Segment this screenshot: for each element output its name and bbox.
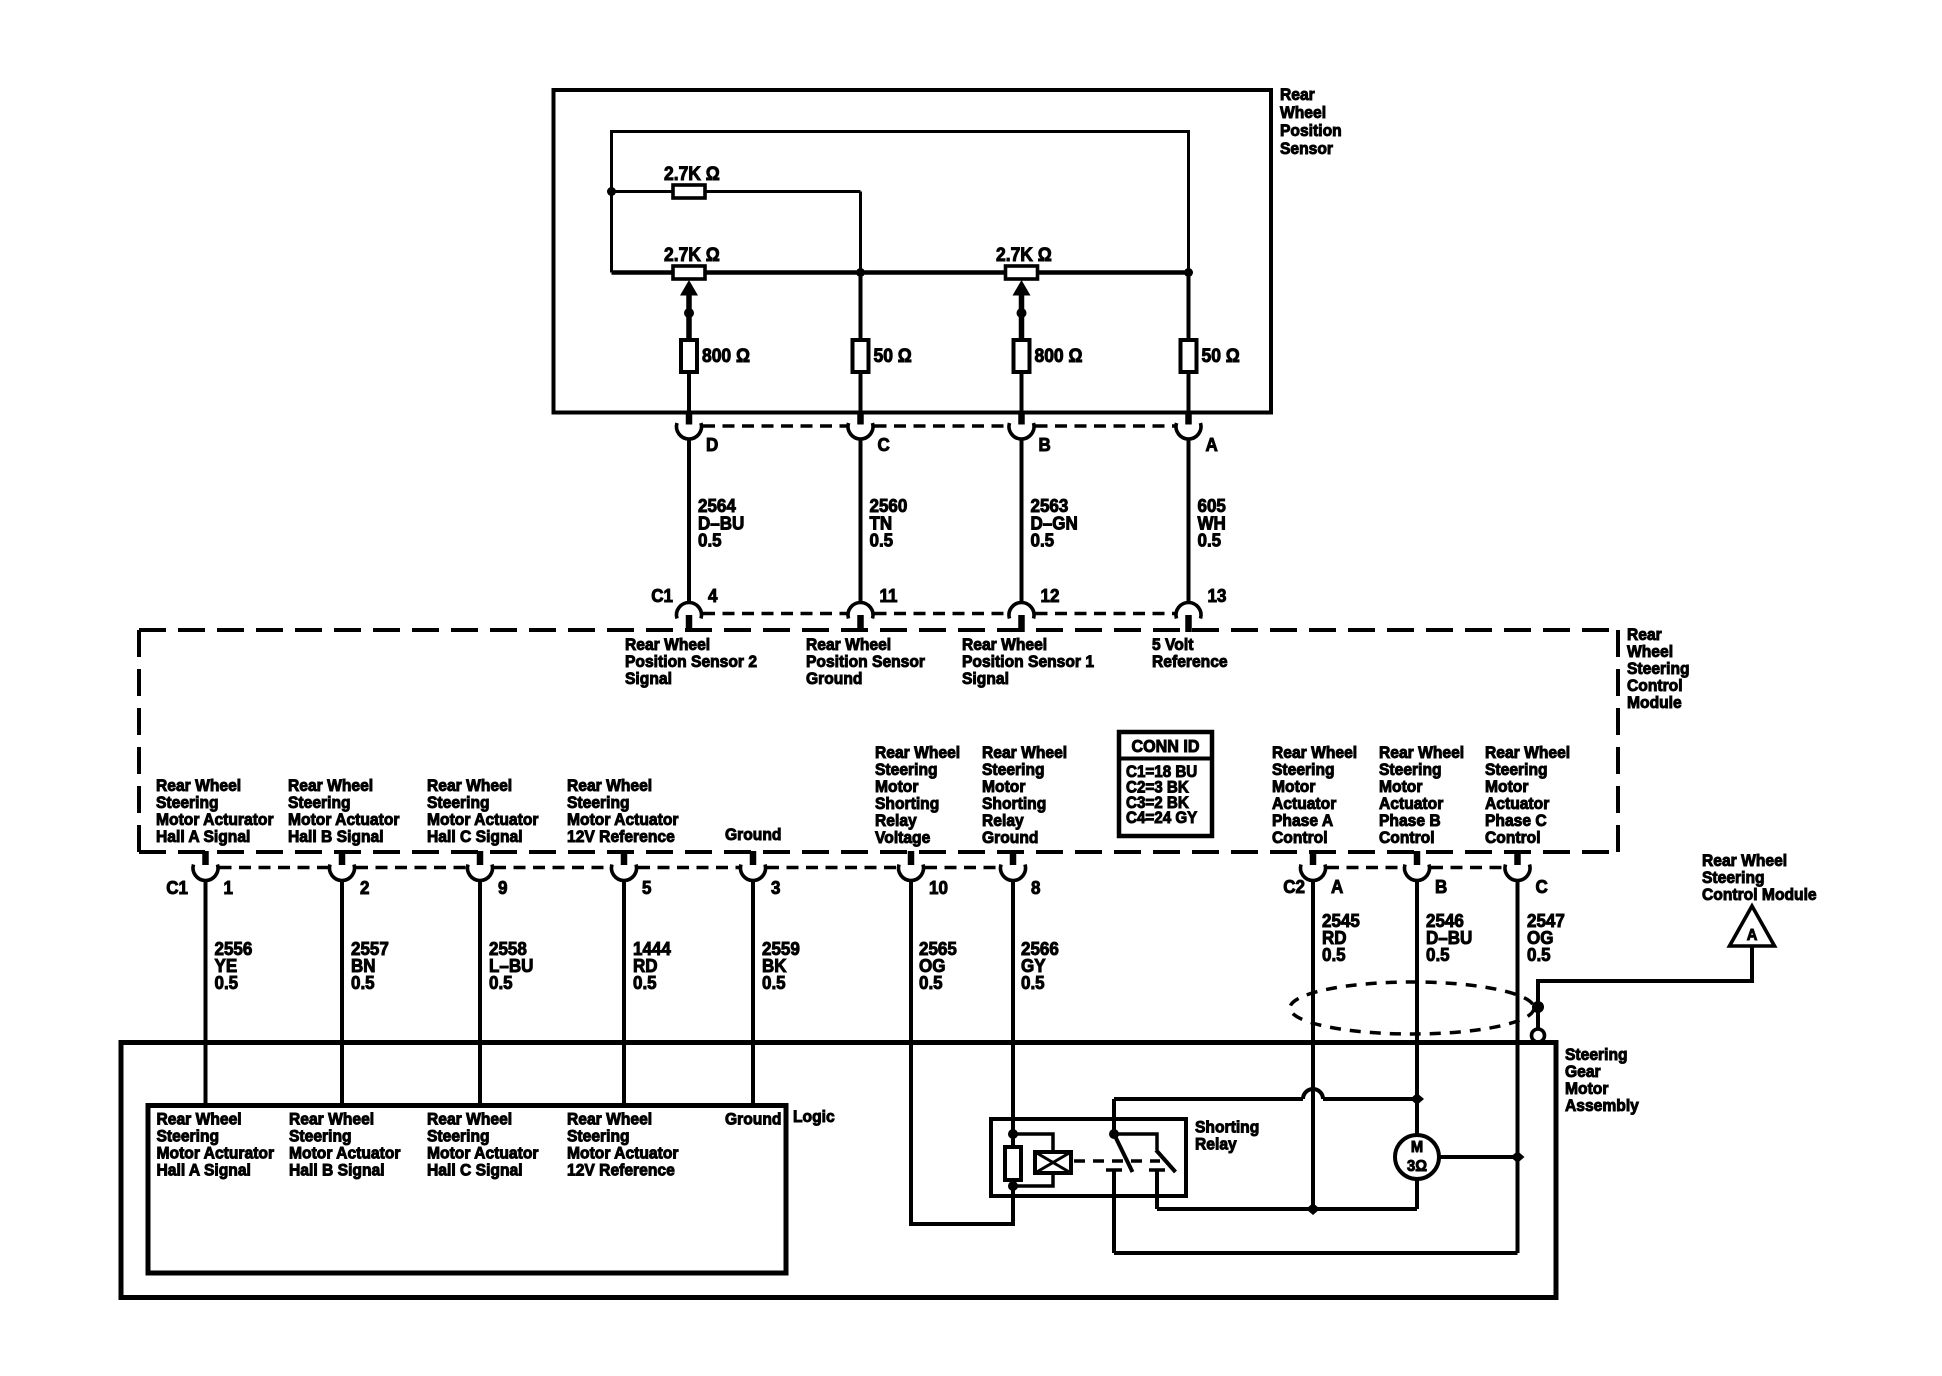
svg-text:Position Sensor: Position Sensor <box>806 652 926 671</box>
node: junction diamond phase A to S2/motor-bottom wire <box>1306 1203 1320 1215</box>
svg-text:5 Volt: 5 Volt <box>1152 635 1194 654</box>
connector pin 10 of control module C1 (bottom row) <box>899 851 949 898</box>
svg-text:Steering: Steering <box>1485 760 1548 779</box>
node: junction dot row-2 at C <box>856 268 865 277</box>
connector pin 13 of control module C1 (top row) <box>1176 585 1227 632</box>
svg-text:Ground: Ground <box>806 669 862 688</box>
svg-text:M: M <box>1411 1138 1423 1156</box>
svg-text:Hall C Signal: Hall C Signal <box>427 1161 523 1180</box>
label pin A function: RWS Motor Actuator Phase A Control <box>1272 743 1357 847</box>
resistor R4 800 ohm (D branch) <box>681 340 750 372</box>
svg-text:Logic: Logic <box>793 1107 835 1126</box>
svg-text:Relay: Relay <box>1195 1135 1237 1154</box>
svg-text:5: 5 <box>642 877 652 898</box>
node: junction diamond at phase C / motor wire <box>1511 1151 1525 1163</box>
svg-text:0.5: 0.5 <box>762 972 786 993</box>
relay contact switch S2 (phase C side) <box>1114 1134 1176 1209</box>
svg-text:C: C <box>878 434 890 455</box>
label pin 9 function: RWS Motor Actuator Hall C Signal <box>427 776 539 846</box>
label Rear Wheel Position Sensor <box>1280 85 1342 158</box>
svg-text:C1: C1 <box>166 877 188 898</box>
svg-text:Steering: Steering <box>427 793 490 812</box>
node: relay bottom node dot <box>1008 1181 1018 1191</box>
dashed mechanical link coil to contacts <box>1074 1159 1160 1163</box>
svg-text:Ground: Ground <box>725 825 781 844</box>
svg-text:B: B <box>1039 434 1051 455</box>
svg-text:11: 11 <box>880 585 898 606</box>
label logic input Hall B <box>289 1110 401 1180</box>
wire: row-1 horizontal (through R1) to node above C <box>612 192 861 273</box>
svg-text:Rear Wheel: Rear Wheel <box>567 1110 652 1129</box>
wire: B column below 800 ohm to box edge <box>1020 372 1024 412</box>
svg-text:C2: C2 <box>1283 876 1305 897</box>
module dashed box: Rear Wheel Steering Control Module <box>139 630 1618 852</box>
svg-text:Actuator: Actuator <box>1379 794 1444 813</box>
svg-text:Steering: Steering <box>288 793 351 812</box>
svg-text:Module: Module <box>1627 693 1682 712</box>
svg-text:0.5: 0.5 <box>1322 944 1346 965</box>
svg-text:Steering: Steering <box>289 1127 352 1146</box>
resistor R2 2.7K (left potentiometer) <box>664 243 720 279</box>
svg-text:Motor Acturator: Motor Acturator <box>157 1144 275 1163</box>
svg-text:Rear Wheel: Rear Wheel <box>156 776 241 795</box>
svg-text:0.5: 0.5 <box>489 972 513 993</box>
svg-text:Rear Wheel: Rear Wheel <box>875 743 960 762</box>
svg-text:Steering: Steering <box>567 1127 630 1146</box>
svg-text:3: 3 <box>771 877 781 898</box>
svg-text:Steering: Steering <box>157 1127 220 1146</box>
node: junction dot row-2 at A <box>1184 268 1193 277</box>
svg-text:Steering: Steering <box>567 793 630 812</box>
label Shorting Relay <box>1195 1118 1259 1154</box>
svg-text:Relay: Relay <box>875 811 917 830</box>
svg-text:Rear Wheel: Rear Wheel <box>962 635 1047 654</box>
label pin 8 function: RWS Motor Shorting Relay Ground <box>982 743 1067 847</box>
CONN ID table <box>1119 732 1212 836</box>
wire 2565 OG 0.5 (shorting relay voltage) <box>911 880 1015 1224</box>
svg-text:Ground: Ground <box>982 828 1038 847</box>
connector pin 1 of control module C1 (bottom row) <box>193 851 233 898</box>
svg-text:Rear: Rear <box>1280 85 1315 104</box>
svg-text:Steering: Steering <box>1272 760 1335 779</box>
svg-text:Steering: Steering <box>156 793 219 812</box>
svg-text:2.7K Ω: 2.7K Ω <box>664 243 720 265</box>
svg-text:0.5: 0.5 <box>1426 944 1450 965</box>
relay contact switch S1 (phase B side) <box>1106 1099 1133 1253</box>
wire: C column inside sensor <box>859 273 863 413</box>
connector pin 9 of control module C1 (bottom row) <box>468 851 508 898</box>
connector pin 8 of control module C1 (bottom row) <box>1001 851 1041 898</box>
wire: motor bottom drop <box>1415 1179 1419 1209</box>
svg-text:C: C <box>1536 876 1548 897</box>
connector pin 5 of control module C1 (bottom row) <box>612 851 652 898</box>
svg-text:Actuator: Actuator <box>1485 794 1550 813</box>
wire: A column inside sensor <box>1187 273 1191 413</box>
svg-text:D: D <box>706 434 718 455</box>
svg-text:Position Sensor 1: Position Sensor 1 <box>962 652 1094 671</box>
svg-text:3Ω: 3Ω <box>1407 1157 1427 1175</box>
svg-text:Control: Control <box>1379 828 1435 847</box>
svg-text:A: A <box>1331 876 1343 897</box>
wire: inner rectangle top/left/right (sensor internal bus) <box>612 132 1189 273</box>
motor M 3-ohm <box>1395 1135 1439 1179</box>
svg-text:Voltage: Voltage <box>875 828 930 847</box>
wire: S1 bottom run to phase C column <box>1114 1251 1518 1255</box>
wire 2564 D-BU 0.5 <box>689 439 744 604</box>
svg-text:0.5: 0.5 <box>1031 530 1055 551</box>
svg-text:0.5: 0.5 <box>351 972 375 993</box>
svg-text:Rear Wheel: Rear Wheel <box>289 1110 374 1129</box>
svg-text:13: 13 <box>1208 585 1227 606</box>
connector pin D of position sensor <box>677 411 719 455</box>
node: dot on B wiper wire <box>1017 308 1027 318</box>
svg-text:Hall B Signal: Hall B Signal <box>288 827 384 846</box>
wire 2547 OG 0.5 (phase C) <box>1518 880 1565 1253</box>
svg-text:0.5: 0.5 <box>633 972 657 993</box>
label pin 13 function: 5 Volt Reference <box>1152 635 1228 671</box>
svg-text:Control: Control <box>1627 676 1683 695</box>
svg-text:800 Ω: 800 Ω <box>1035 344 1083 366</box>
svg-text:Rear Wheel: Rear Wheel <box>625 635 710 654</box>
svg-text:8: 8 <box>1031 877 1041 898</box>
svg-text:Motor Actuator: Motor Actuator <box>567 810 679 829</box>
wire 1444 to logic <box>624 880 671 1106</box>
svg-text:Motor: Motor <box>1565 1079 1609 1098</box>
svg-text:2.7K Ω: 2.7K Ω <box>996 243 1052 265</box>
resistor R1 2.7K (upper) <box>664 162 720 198</box>
svg-text:Rear Wheel: Rear Wheel <box>806 635 891 654</box>
svg-text:9: 9 <box>498 877 508 898</box>
label pin 10 function: RWS Motor Shorting Relay Voltage <box>875 743 960 847</box>
svg-text:0.5: 0.5 <box>1021 972 1045 993</box>
svg-text:1: 1 <box>224 877 234 898</box>
svg-text:Motor: Motor <box>875 777 919 796</box>
svg-text:Phase B: Phase B <box>1379 811 1441 830</box>
svg-text:Phase A: Phase A <box>1272 811 1333 830</box>
connector pin C of control module C2 <box>1505 851 1548 897</box>
svg-text:0.5: 0.5 <box>215 972 239 993</box>
svg-text:2.7K Ω: 2.7K Ω <box>664 162 720 184</box>
svg-text:C4=24 GY: C4=24 GY <box>1126 810 1198 828</box>
svg-text:4: 4 <box>708 585 718 606</box>
resistor R5 50 ohm (C branch) <box>853 340 912 372</box>
shield ellipse (dashed) around phase wires <box>1290 982 1534 1034</box>
relay coil K1 (box with X) and parallel branch <box>1013 1134 1071 1186</box>
label logic input 12V Reference <box>567 1110 679 1180</box>
logic box <box>148 1106 786 1274</box>
svg-text:Rear Wheel: Rear Wheel <box>1702 851 1787 870</box>
connector pin 12 of control module C1 (top row) <box>1009 585 1060 632</box>
svg-text:10: 10 <box>929 877 948 898</box>
node: junction dot left vertical / row-1 <box>607 187 616 196</box>
connector pin 3 of control module C1 (bottom row) <box>741 851 781 898</box>
svg-text:2: 2 <box>360 877 370 898</box>
wire 2546 D-BU 0.5 (phase B) <box>1417 880 1472 1135</box>
svg-text:Phase C: Phase C <box>1485 811 1547 830</box>
label Rear Wheel Steering Control Module (right of box) <box>1627 625 1690 712</box>
resistor R3 2.7K (right potentiometer) <box>996 243 1052 279</box>
svg-text:Steering: Steering <box>982 760 1045 779</box>
shorting relay box <box>991 1119 1186 1196</box>
svg-text:Hall B Signal: Hall B Signal <box>289 1161 385 1180</box>
svg-text:Rear Wheel: Rear Wheel <box>427 1110 512 1129</box>
svg-text:0.5: 0.5 <box>919 972 943 993</box>
svg-text:Signal: Signal <box>625 669 672 688</box>
connector pin 11 of control module C1 (top row) <box>848 585 898 632</box>
svg-text:B: B <box>1435 876 1447 897</box>
svg-text:0.5: 0.5 <box>1198 530 1222 551</box>
svg-text:Motor Actuator: Motor Actuator <box>567 1144 679 1163</box>
svg-text:Rear Wheel: Rear Wheel <box>982 743 1067 762</box>
label pin 11 function: Rear Wheel Position Sensor Ground <box>806 635 926 688</box>
svg-text:12V Reference: 12V Reference <box>567 1161 675 1180</box>
svg-text:Steering: Steering <box>1627 659 1690 678</box>
node: dot on D wiper wire <box>684 308 694 318</box>
svg-text:Sensor: Sensor <box>1280 139 1334 158</box>
label pin C function: RWS Motor Actuator Phase C Control <box>1485 743 1570 847</box>
svg-text:Assembly: Assembly <box>1565 1096 1639 1115</box>
connector pin 2 of control module C1 (bottom row) <box>330 851 370 898</box>
svg-text:12V Reference: 12V Reference <box>567 827 675 846</box>
svg-text:Control Module: Control Module <box>1702 885 1817 904</box>
label pin 4 function: Rear Wheel Position Sensor 2 Signal <box>625 635 757 688</box>
svg-text:Rear Wheel: Rear Wheel <box>1272 743 1357 762</box>
label pin B function: RWS Motor Actuator Phase B Control <box>1379 743 1464 847</box>
connector pin B of control module C2 <box>1405 851 1448 897</box>
svg-text:Rear: Rear <box>1627 625 1662 644</box>
connector dashed link 4-11-12-13 <box>703 612 1175 616</box>
label Steering Gear Motor Assembly <box>1565 1045 1639 1115</box>
wiper arrow into R3 (pin B branch) <box>1013 280 1031 340</box>
connector pin 4 of control module C1 (top row) <box>677 585 718 632</box>
svg-text:Shorting: Shorting <box>982 794 1046 813</box>
svg-text:Motor Actuator: Motor Actuator <box>288 810 400 829</box>
connector dashed link D-C-B-A <box>703 424 1175 428</box>
svg-text:Position: Position <box>1280 121 1342 140</box>
svg-text:Actuator: Actuator <box>1272 794 1337 813</box>
connector pin C of position sensor <box>848 411 890 455</box>
label pin 1 function: RWS Motor Acturator Hall A Signal <box>156 776 274 846</box>
svg-text:Ground: Ground <box>725 1110 781 1129</box>
wiper arrow into R2 (pin D branch) <box>680 280 698 340</box>
svg-text:0.5: 0.5 <box>1527 944 1551 965</box>
label pin 2 function: RWS Motor Actuator Hall B Signal <box>288 776 400 846</box>
svg-text:Hall C Signal: Hall C Signal <box>427 827 523 846</box>
svg-text:Reference: Reference <box>1152 652 1228 671</box>
svg-text:Motor: Motor <box>1485 777 1529 796</box>
svg-text:Control: Control <box>1272 828 1328 847</box>
label pin 5 function: RWS Motor Actuator 12V Reference <box>567 776 679 846</box>
svg-text:Steering: Steering <box>875 760 938 779</box>
svg-text:Rear Wheel: Rear Wheel <box>1379 743 1464 762</box>
svg-text:Steering: Steering <box>1702 868 1765 887</box>
svg-text:A: A <box>1747 926 1758 944</box>
label logic input Hall A: Rear Wheel Steering Motor Acturator Hall A Signal <box>157 1110 275 1180</box>
off-page reference triangle A: Rear Wheel Steering Control Module <box>1730 906 1775 946</box>
connector pin A of control module C2 <box>1301 851 1344 897</box>
wire 2560 TN 0.5 <box>861 439 908 604</box>
svg-text:C1: C1 <box>651 585 673 606</box>
wire: D column below 800 ohm to box edge <box>687 372 691 412</box>
svg-text:Signal: Signal <box>962 669 1009 688</box>
wire: shield drain to control module <box>1538 946 1752 1028</box>
wire 2559 to logic <box>753 880 800 1106</box>
sensor box: Rear Wheel Position Sensor <box>554 90 1272 413</box>
wire: S2 bottom to motor bottom <box>1157 1207 1417 1211</box>
svg-text:Wheel: Wheel <box>1627 642 1673 661</box>
svg-text:Control: Control <box>1485 828 1541 847</box>
svg-text:Rear Wheel: Rear Wheel <box>567 776 652 795</box>
connector dashed link pins 1-8 <box>220 866 1000 870</box>
svg-text:Relay: Relay <box>982 811 1024 830</box>
svg-text:Motor Actuator: Motor Actuator <box>427 1144 539 1163</box>
svg-text:800 Ω: 800 Ω <box>702 344 750 366</box>
svg-text:Shorting: Shorting <box>875 794 939 813</box>
wire 2545 RD 0.5 (phase A) <box>1313 880 1360 1206</box>
node: junction diamond at phase B / S1 wire <box>1410 1093 1424 1105</box>
svg-text:Motor: Motor <box>982 777 1026 796</box>
resistor R8 (relay suppression resistor) <box>1005 1147 1021 1180</box>
svg-text:Wheel: Wheel <box>1280 103 1326 122</box>
wire: row-2 horizontal bus (R2/R3 row) <box>612 270 1189 275</box>
svg-text:Rear Wheel: Rear Wheel <box>288 776 373 795</box>
svg-text:Motor Actuator: Motor Actuator <box>427 810 539 829</box>
svg-text:A: A <box>1206 434 1218 455</box>
svg-text:0.5: 0.5 <box>870 530 894 551</box>
svg-text:12: 12 <box>1041 585 1060 606</box>
wire 2558 to logic <box>480 880 533 1106</box>
svg-text:Gear: Gear <box>1565 1062 1601 1081</box>
svg-text:Rear Wheel: Rear Wheel <box>157 1110 242 1129</box>
label logic input Hall C <box>427 1110 539 1180</box>
svg-text:Rear Wheel: Rear Wheel <box>1485 743 1570 762</box>
svg-text:Motor: Motor <box>1272 777 1316 796</box>
connector pin B of position sensor <box>1009 411 1051 455</box>
svg-text:50 Ω: 50 Ω <box>874 344 912 366</box>
connector pin A of position sensor <box>1176 411 1218 455</box>
svg-text:Steering: Steering <box>1565 1045 1628 1064</box>
svg-text:Motor Acturator: Motor Acturator <box>156 810 274 829</box>
svg-text:Rear Wheel: Rear Wheel <box>427 776 512 795</box>
svg-text:CONN ID: CONN ID <box>1132 736 1200 756</box>
label for triangle A <box>1702 851 1817 904</box>
resistor R7 50 ohm (A branch) <box>1181 340 1240 372</box>
svg-text:50 Ω: 50 Ω <box>1202 344 1240 366</box>
connector ring terminal (open circle) on assembly case <box>1532 1029 1545 1042</box>
svg-text:Motor: Motor <box>1379 777 1423 796</box>
resistor R6 800 ohm (B branch) <box>1014 340 1083 372</box>
wire: motor right side to phase C column <box>1439 1155 1518 1159</box>
node: relay top node dot <box>1008 1129 1018 1139</box>
wire 2563 D-GN 0.5 <box>1022 439 1078 604</box>
svg-text:Motor Actuator: Motor Actuator <box>289 1144 401 1163</box>
wire: S1 top to phase B junction (hops over phase A) <box>1114 1089 1417 1099</box>
svg-text:Shorting: Shorting <box>1195 1118 1259 1137</box>
svg-text:Steering: Steering <box>427 1127 490 1146</box>
wire 2557 to logic <box>342 880 389 1106</box>
assembly box: Steering Gear Motor Assembly <box>121 1043 1556 1298</box>
svg-text:0.5: 0.5 <box>698 530 722 551</box>
svg-text:Steering: Steering <box>1379 760 1442 779</box>
svg-text:Position Sensor 2: Position Sensor 2 <box>625 652 757 671</box>
svg-text:Hall A Signal: Hall A Signal <box>156 827 250 846</box>
wire 2556 to logic <box>206 880 253 1106</box>
wire 605 WH 0.5 <box>1189 439 1226 604</box>
svg-text:Hall A Signal: Hall A Signal <box>157 1161 251 1180</box>
wire 2566 GY 0.5 (shorting relay ground) <box>1013 880 1059 1224</box>
node: shield drain junction dot <box>1532 1001 1544 1013</box>
connector dashed link pins A-C <box>1327 866 1504 870</box>
label pin 12 function: Rear Wheel Position Sensor 1 Signal <box>962 635 1094 688</box>
